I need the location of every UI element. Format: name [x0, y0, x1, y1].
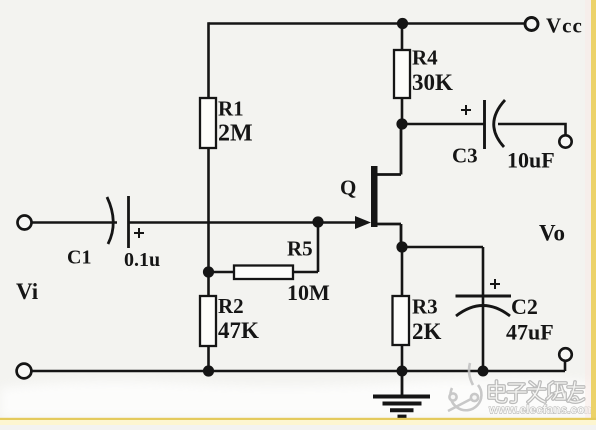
svg-text:www.elecfans.com: www.elecfans.com [488, 403, 595, 417]
capacitor C3 [452, 100, 555, 173]
svg-text:10uF: 10uF [507, 148, 555, 173]
wire left vertical upper (Vcc corner to R1) [207, 22, 210, 98]
wire source drop [400, 224, 403, 247]
svg-text:C3: C3 [452, 144, 478, 168]
svg-text:2K: 2K [412, 319, 442, 344]
wire R5 riser [317, 223, 320, 273]
wire R3 bottom [401, 345, 404, 371]
svg-text:47uF: 47uF [506, 320, 554, 345]
node Vcc rail to R4 [397, 18, 408, 29]
svg-text:Q: Q [340, 176, 356, 200]
capacitor C2 [456, 247, 554, 371]
wire R5 to riser [293, 271, 318, 274]
wire R1 bottom to bias node to R2 [207, 148, 210, 296]
right yellow strip [591, 0, 596, 425]
wire R4 top [401, 24, 404, 51]
wire drain riser [400, 124, 403, 175]
svg-text:30K: 30K [412, 70, 453, 95]
svg-text:Vi: Vi [16, 279, 39, 304]
resistor R1 [200, 97, 253, 149]
svg-text:0.1u: 0.1u [124, 249, 160, 271]
resistor R4 [394, 46, 453, 99]
node C2 ground [478, 366, 489, 377]
svg-text:47K: 47K [218, 318, 259, 343]
svg-text:R5: R5 [287, 237, 313, 261]
bottom pale yellow strip [0, 420, 596, 425]
node bias divider junction [203, 266, 214, 277]
label Vcc [525, 14, 583, 38]
wire top rail [209, 22, 526, 25]
wire source node to C2 [402, 246, 483, 249]
node source junction [396, 241, 407, 252]
svg-text:C1: C1 [67, 247, 91, 269]
node R3 ground [397, 366, 408, 377]
resistor R3 [393, 295, 442, 346]
svg-text:Vcc: Vcc [546, 14, 583, 38]
wire R2 bottom to ground rail [207, 346, 210, 371]
watermark text dianzifashaoyou [489, 381, 584, 402]
svg-text:2M: 2M [218, 121, 253, 147]
wire C1 to gate [129, 221, 358, 224]
right pink transition [585, 0, 591, 425]
terminal input top [18, 216, 32, 230]
node gate-R5 junction [312, 216, 323, 227]
svg-text:Vo: Vo [539, 221, 565, 246]
terminal C3 output [559, 135, 571, 147]
svg-text:R1: R1 [218, 97, 244, 121]
node R2 ground [203, 365, 214, 376]
wire input to C1 [32, 221, 118, 224]
capacitor C1 [67, 196, 160, 271]
node drain-C3 junction [396, 118, 407, 129]
terminal input bottom [17, 364, 32, 379]
bottom yellow line [0, 418, 596, 420]
watermark logo [448, 363, 481, 411]
transistor Q [340, 166, 401, 229]
wire bias node to R5 [209, 271, 235, 274]
ground [373, 371, 430, 417]
svg-text:R3: R3 [412, 295, 438, 319]
svg-text:R2: R2 [218, 294, 244, 318]
wire R4 bottom [401, 98, 404, 124]
resistor R2 [200, 294, 259, 346]
wire ground rail [32, 370, 566, 373]
wire drain node to C3 [402, 123, 484, 126]
wire R3 top [401, 247, 404, 296]
wire C3 to output terminal [498, 124, 566, 136]
svg-text:10M: 10M [287, 280, 330, 305]
svg-text:R4: R4 [412, 46, 438, 70]
svg-text:C2: C2 [511, 294, 538, 319]
terminal output bottom [559, 348, 572, 361]
wire output terminal riser [564, 360, 567, 371]
resistor R5 [234, 237, 330, 306]
